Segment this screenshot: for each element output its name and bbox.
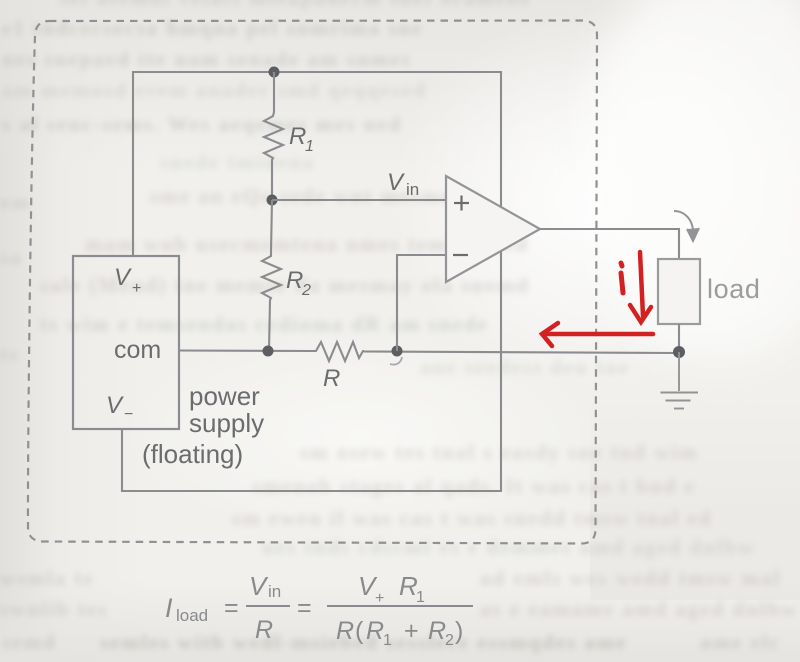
svg-text:+: + [375,590,384,607]
svg-text:+: + [132,280,141,297]
svg-text:R: R [323,365,340,392]
svg-text:supply: supply [189,408,264,438]
svg-text:V: V [106,392,124,419]
svg-text:1: 1 [383,632,392,649]
svg-text:+: + [404,617,419,645]
wire com rail right segment [364,352,679,354]
red annotation i label [621,263,623,293]
svg-text:2: 2 [445,632,454,649]
feedback tap small arrow [390,357,402,365]
svg-text:R: R [366,617,384,645]
svg-text:load: load [176,606,208,625]
label R [323,365,340,392]
wire com rail (supply com to load bottom) [179,349,312,352]
svg-text:V: V [114,264,132,291]
label power supply [189,381,264,438]
svg-text:in: in [268,582,281,601]
node E (load bottom / ground) [673,346,685,358]
resistor R (current sense) [312,342,364,361]
wire Vin (divider to op-amp + input) [272,199,447,201]
node C (R2 bottom on com rail) [263,346,274,357]
op-amp - input marker [453,254,468,256]
svg-text:power: power [189,381,260,411]
svg-text:R: R [336,617,354,645]
wire output (op-amp to load) [540,229,679,259]
svg-text:in: in [406,180,419,199]
node A (top rail / R1 junction) [269,67,280,78]
label V+ terminal [114,264,141,297]
power supply box [73,256,179,429]
dashed enclosure border [28,21,597,544]
svg-text:R: R [399,571,418,601]
red annotation current arrow down [630,252,651,322]
resistor R2 [262,200,281,351]
label Vin [387,169,419,199]
label R2 [286,267,311,299]
label (floating) [142,439,243,469]
wire load bottom [678,324,680,353]
formula fraction bars [246,605,473,607]
ground [661,352,699,409]
red annotation current arrow left [542,323,653,346]
label load [707,274,760,304]
current direction curved arrow [674,211,699,241]
svg-text:R: R [286,267,303,294]
wire V+ rail (supply top to rail, across top, down right side, bottom, to V- terminal) [122,72,501,491]
svg-text:): ) [455,617,463,645]
bleed-through rows [60,0,480,11]
svg-text:=: = [297,594,312,622]
svg-text:R: R [289,123,306,150]
svg-text:(floating): (floating) [142,439,243,469]
formula I load [165,571,463,649]
svg-text:(: ( [355,617,364,645]
load [658,259,700,324]
wire feedback (tap to op-amp - input) [397,255,447,351]
svg-text:=: = [224,594,239,622]
svg-text:I: I [165,593,173,623]
label R1 [289,123,314,155]
svg-text:1: 1 [416,589,425,606]
svg-text:R: R [255,616,273,644]
label V- terminal [106,392,133,423]
svg-text:load: load [707,274,760,304]
svg-text:2: 2 [301,282,311,299]
svg-text:R: R [428,617,446,645]
svg-text:1: 1 [305,138,314,155]
label com terminal [114,336,161,364]
op-amp + input marker [454,196,469,211]
resistor R1 [264,72,283,200]
node B (R1/R2 divider, Vin) [267,195,278,206]
svg-text:V: V [387,169,405,196]
node D (feedback tap) [392,346,403,357]
svg-text:V: V [249,571,269,601]
op-amp U1 [446,176,540,282]
svg-text:com: com [114,336,161,364]
svg-text:−: − [124,406,133,423]
